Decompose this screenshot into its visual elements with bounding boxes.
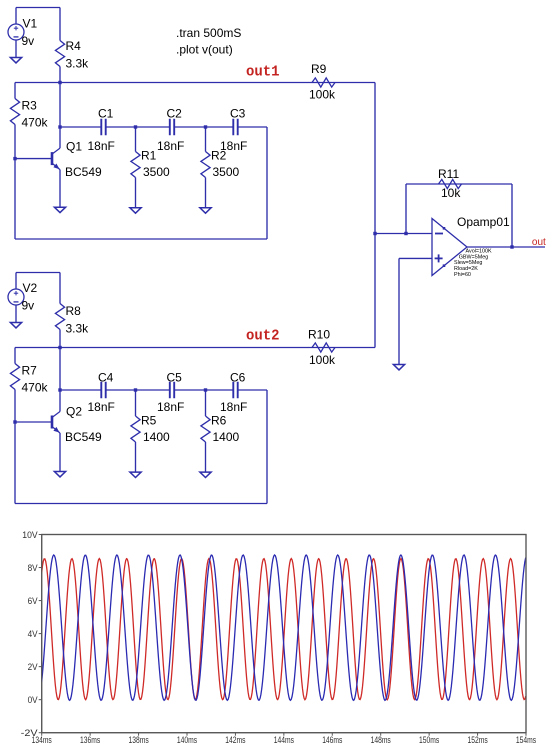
svg-text:18nF: 18nF [220, 400, 247, 414]
svg-text:1400: 1400 [213, 430, 240, 444]
svg-text:152ms: 152ms [468, 735, 488, 746]
svg-text:3.3k: 3.3k [66, 57, 90, 71]
svg-text:138ms: 138ms [129, 735, 149, 746]
svg-text:Opamp01: Opamp01 [457, 215, 510, 229]
svg-text:154ms: 154ms [516, 735, 536, 746]
svg-text:R9: R9 [311, 62, 327, 76]
svg-text:Phi=60: Phi=60 [454, 272, 471, 278]
svg-text:R6: R6 [211, 414, 227, 428]
svg-text:C6: C6 [230, 371, 246, 385]
svg-text:C2: C2 [167, 107, 183, 121]
svg-text:9v: 9v [22, 34, 35, 48]
svg-text:out: out [532, 237, 546, 248]
svg-text:out2: out2 [246, 328, 280, 345]
svg-text:R3: R3 [22, 99, 38, 113]
svg-text:.tran 500mS: .tran 500mS [176, 26, 241, 40]
svg-text:100k: 100k [309, 88, 336, 102]
svg-text:out1: out1 [246, 63, 280, 80]
svg-text:6V: 6V [28, 596, 39, 607]
svg-text:BC549: BC549 [65, 430, 102, 444]
svg-text:9v: 9v [22, 299, 35, 313]
svg-text:3.3k: 3.3k [66, 322, 90, 336]
svg-text:C3: C3 [230, 107, 246, 121]
svg-text:2V: 2V [28, 662, 39, 673]
svg-text:3500: 3500 [143, 165, 170, 179]
svg-text:R11: R11 [438, 167, 459, 181]
svg-text:134ms: 134ms [32, 735, 52, 746]
svg-text:10k: 10k [441, 186, 461, 200]
svg-text:470k: 470k [22, 381, 49, 395]
svg-text:C1: C1 [98, 107, 114, 121]
svg-text:100k: 100k [309, 353, 336, 367]
svg-text:BC549: BC549 [65, 165, 102, 179]
svg-text:146ms: 146ms [322, 735, 342, 746]
svg-text:470k: 470k [22, 116, 49, 130]
svg-text:R4: R4 [66, 39, 82, 53]
svg-text:V1: V1 [23, 17, 38, 31]
svg-text:Q1: Q1 [66, 140, 82, 154]
svg-text:18nF: 18nF [157, 400, 184, 414]
svg-text:3500: 3500 [213, 165, 240, 179]
svg-text:18nF: 18nF [88, 400, 115, 414]
svg-text:C4: C4 [98, 371, 114, 385]
svg-text:150ms: 150ms [419, 735, 439, 746]
svg-text:R8: R8 [66, 304, 82, 318]
svg-text:136ms: 136ms [80, 735, 100, 746]
svg-text:1400: 1400 [143, 430, 170, 444]
svg-text:148ms: 148ms [371, 735, 391, 746]
svg-text:18nF: 18nF [88, 139, 115, 153]
svg-text:0V: 0V [28, 695, 39, 706]
svg-text:Q2: Q2 [66, 405, 82, 419]
svg-text:R5: R5 [141, 414, 157, 428]
svg-text:.plot v(out): .plot v(out) [176, 43, 233, 57]
svg-text:8V: 8V [28, 563, 39, 574]
svg-text:10V: 10V [22, 530, 38, 541]
svg-text:R2: R2 [211, 149, 227, 163]
svg-text:R10: R10 [308, 328, 330, 342]
svg-text:C5: C5 [167, 371, 183, 385]
svg-text:R1: R1 [141, 149, 157, 163]
svg-text:18nF: 18nF [157, 139, 184, 153]
svg-text:4V: 4V [28, 629, 39, 640]
svg-text:R7: R7 [22, 364, 38, 378]
svg-text:144ms: 144ms [274, 735, 294, 746]
svg-text:142ms: 142ms [225, 735, 245, 746]
svg-text:V2: V2 [23, 281, 38, 295]
svg-text:140ms: 140ms [177, 735, 197, 746]
